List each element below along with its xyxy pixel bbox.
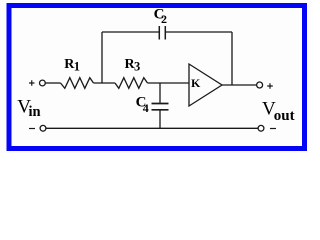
wire C4 branch upper stub bbox=[159, 83, 161, 103]
svg-text:4: 4 bbox=[143, 101, 149, 115]
node Vout - terminal bbox=[258, 125, 276, 131]
label Vout bbox=[262, 99, 295, 125]
wire top feedback right segment bbox=[165, 32, 232, 85]
node A junction wire up to C2 bbox=[101, 32, 103, 83]
svg-text:in: in bbox=[29, 104, 41, 120]
node Vin + terminal bbox=[29, 80, 45, 86]
svg-text:3: 3 bbox=[134, 60, 140, 74]
wire bbox=[94, 82, 116, 84]
svg-text:out: out bbox=[274, 108, 295, 124]
capacitor C2 bbox=[154, 6, 167, 39]
node Vout + terminal bbox=[257, 82, 273, 89]
resistor R1 bbox=[61, 57, 94, 88]
wire bbox=[46, 82, 61, 84]
svg-text:2: 2 bbox=[161, 12, 167, 26]
wire C4 branch lower stub bbox=[159, 111, 161, 129]
wire bottom rail bbox=[46, 127, 258, 129]
label Vin bbox=[17, 97, 40, 120]
svg-text:K: K bbox=[191, 76, 201, 90]
wire top feedback left segment bbox=[102, 31, 159, 33]
wire output bbox=[222, 84, 256, 86]
capacitor C4 bbox=[136, 95, 169, 115]
op-amp K bbox=[189, 64, 222, 106]
node Vin - terminal bbox=[29, 125, 46, 131]
resistor R3 bbox=[115, 57, 148, 88]
wire bbox=[148, 82, 190, 84]
svg-text:1: 1 bbox=[74, 60, 80, 74]
